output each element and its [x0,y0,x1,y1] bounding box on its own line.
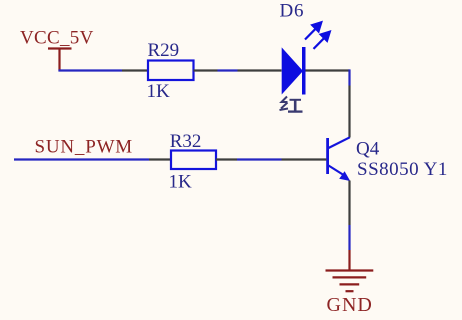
LED D6 [282,22,330,94]
R29 pin 1 [122,69,149,71]
svg-text:VCC_5V: VCC_5V [20,28,94,49]
resistor R29 [148,61,194,81]
Q4 emitter pin [348,181,350,226]
LED D6 anode pin [238,69,282,71]
power flag VCC_5V [48,49,72,71]
svg-text:R32: R32 [170,131,202,152]
wire [218,69,238,71]
R32 pin 1 [149,158,171,160]
wire [237,158,282,160]
LED D6 cathode pin [306,69,350,71]
resistor R32 [171,151,216,170]
Q4 collector pin [348,86,350,138]
svg-text:1K: 1K [147,81,171,102]
svg-text:R29: R29 [148,40,180,61]
svg-text:Q4: Q4 [356,139,380,160]
svg-text:GND: GND [327,294,373,316]
svg-text:1K: 1K [169,172,193,193]
svg-text:D6: D6 [280,1,305,22]
wire [14,158,149,160]
label 红 [280,97,303,112]
wire [348,69,350,85]
Q4 base pin [282,158,327,160]
svg-text:SS8050 Y1: SS8050 Y1 [357,159,448,180]
wire [348,225,350,250]
power flag GND [326,250,374,291]
R29 pin 2 [194,69,218,71]
transistor Q4 [328,137,351,181]
R32 pin 2 [216,158,237,160]
wire [58,69,122,71]
svg-text:SUN_PWM: SUN_PWM [35,137,134,158]
